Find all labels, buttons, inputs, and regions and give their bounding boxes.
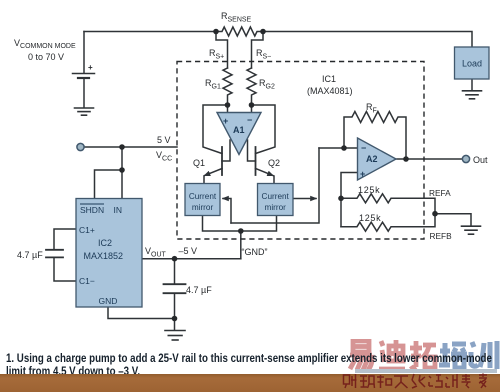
char pin — [360, 376, 375, 388]
char he — [377, 375, 392, 388]
node A2 noninverting — [338, 196, 344, 202]
node ground rail junction — [172, 316, 178, 322]
wire A1 right feedback to Q2 collector — [252, 105, 276, 154]
node A2 inverting — [341, 145, 347, 151]
wire GND drop to -5V rail — [240, 231, 242, 259]
wire A2 output to Out — [396, 158, 463, 160]
wire A1 inverting stub — [251, 105, 253, 113]
op-amp A2 — [358, 138, 397, 180]
wire A2 noninverting input — [341, 173, 358, 199]
battery B1 VCOMMON MODE — [73, 74, 95, 108]
caption line 2 — [6, 366, 140, 378]
wire left mirror input with arrow — [223, 199, 231, 224]
capacitor C1 4.7uF — [46, 250, 63, 258]
watermark char xun — [471, 341, 497, 369]
wire REF node to ground — [435, 214, 471, 226]
svg-text:C1+: C1+ — [79, 225, 95, 235]
wire 5V rail — [84, 146, 177, 148]
svg-text:(MAX4081): (MAX4081) — [307, 86, 353, 96]
svg-text:Load: Load — [462, 59, 482, 69]
char she2 — [429, 375, 442, 387]
svg-text:−: − — [247, 115, 252, 125]
watermark big characters (pseudo CJK strokes) — [346, 339, 500, 375]
svg-text:+: + — [223, 116, 228, 126]
svg-text:Out: Out — [473, 155, 488, 165]
svg-text:5 V: 5 V — [157, 135, 171, 145]
node 5V junction — [119, 144, 125, 150]
watermark underline bar — [355, 369, 497, 373]
IC2 MAX1852 box — [76, 199, 142, 308]
node A1 - input — [249, 102, 255, 108]
svg-text:RS+: RS+ — [209, 48, 224, 61]
svg-text:+: + — [360, 169, 365, 179]
wire 5V to IN pin — [121, 147, 123, 199]
svg-text:REFB: REFB — [430, 231, 453, 241]
ground (Load) — [463, 91, 482, 99]
wire A2 inverting input — [319, 147, 358, 149]
wire RS+ jog — [216, 32, 228, 69]
wire 5V branch to SHDN pin — [95, 170, 123, 199]
wire A1 left feedback to Q1 collector — [203, 105, 228, 154]
bottom brown bar — [0, 374, 500, 392]
terminal 5V — [77, 143, 84, 150]
char ji — [446, 374, 457, 388]
svg-text:Current: Current — [262, 192, 290, 201]
watermark char pei — [439, 343, 467, 368]
resistor RG1 — [223, 68, 232, 105]
node VOUT junction — [172, 256, 178, 262]
watermark char di — [379, 340, 405, 369]
svg-text:RSENSE: RSENSE — [221, 11, 252, 24]
char xian — [412, 374, 425, 388]
resistor RF with loop — [344, 112, 406, 160]
op-amp A1 — [217, 113, 261, 155]
svg-text:IN: IN — [114, 205, 123, 215]
svg-text:125k: 125k — [358, 185, 380, 195]
svg-text:IC1: IC1 — [322, 74, 336, 84]
wire mirror node to A2 inverting node — [231, 148, 319, 223]
current mirror left box — [185, 184, 220, 216]
Load box — [455, 47, 490, 79]
wire C1+ pin — [54, 229, 76, 249]
watermark char tuo — [410, 341, 436, 368]
watermark small characters row (pseudo CJK strokes) — [342, 373, 500, 391]
svg-text:A1: A1 — [233, 125, 245, 135]
svg-text:mirror: mirror — [192, 203, 214, 212]
node RSENSE right junction — [260, 29, 266, 35]
wire VOUT -5V rail — [142, 258, 241, 260]
resistor RG2 — [247, 68, 256, 105]
svg-text:125k: 125k — [359, 213, 381, 223]
char zhuan — [462, 374, 471, 388]
wire right mirror output with arrow — [293, 198, 316, 200]
svg-text:Q2: Q2 — [268, 158, 280, 168]
svg-text:RG1: RG1 — [205, 78, 221, 91]
ground (IC2) — [165, 331, 185, 341]
svg-text:VOUT: VOUT — [145, 246, 167, 259]
IC1 dashed boundary box — [177, 62, 424, 240]
current mirror right box — [258, 184, 294, 216]
watermark char yi — [350, 341, 372, 370]
svg-text:4.7 µF: 4.7 µF — [17, 250, 43, 260]
svg-text:A2: A2 — [366, 154, 378, 164]
resistor RSENSE — [216, 27, 263, 36]
wire Q2 emitter to current mirror — [273, 176, 275, 184]
svg-text:4.7 µF: 4.7 µF — [186, 285, 212, 295]
resistor 125k REFA — [341, 194, 435, 214]
wire RS- jog — [252, 32, 264, 69]
svg-text:−: − — [361, 143, 366, 153]
wire top rail from RSENSE right node to Load — [263, 32, 472, 48]
node REF join — [432, 211, 438, 217]
resistor 125k REFB — [341, 214, 435, 232]
svg-text:IC2: IC2 — [98, 238, 112, 248]
wire source drop — [83, 32, 85, 74]
svg-text:VCC: VCC — [156, 150, 172, 163]
wire IC2 GND pin — [108, 307, 175, 319]
svg-text:C1−: C1− — [79, 276, 95, 286]
transistor Q1 — [205, 140, 231, 176]
capacitor C2 4.7uF — [164, 284, 186, 293]
wire top rail from source to RSENSE left node — [84, 31, 216, 33]
wire VOUT cap drop — [174, 259, 176, 284]
node RSENSE left junction — [213, 29, 219, 35]
wire Q1 emitter to current mirror — [203, 176, 205, 184]
terminal Out — [462, 155, 469, 162]
svg-text:Q1: Q1 — [193, 158, 205, 168]
svg-text:VCOMMON MODE: VCOMMON MODE — [14, 38, 76, 50]
svg-text:0 to 70 V: 0 to 70 V — [28, 52, 64, 62]
svg-text:RS−: RS− — [256, 48, 271, 61]
ground (battery) — [75, 108, 94, 115]
svg-text:Current: Current — [189, 192, 217, 201]
svg-text:–5 V: –5 V — [179, 246, 198, 256]
node A2 output — [403, 156, 409, 162]
svg-text:mirror: mirror — [265, 203, 287, 212]
svg-text:RG2: RG2 — [259, 78, 275, 91]
caption line 1 — [6, 353, 492, 365]
wire between 125k resistors — [340, 198, 342, 226]
svg-text:GND: GND — [99, 296, 118, 306]
char tian — [394, 376, 408, 388]
svg-text:REFA: REFA — [429, 188, 451, 198]
node GND rail junction — [238, 228, 244, 234]
svg-text:“GND”: “GND” — [242, 247, 268, 257]
svg-text:MAX1852: MAX1852 — [84, 251, 124, 261]
char she — [344, 374, 357, 388]
char jia — [479, 374, 487, 389]
wire current mirror bottom rail — [203, 216, 277, 232]
wire ground stem — [174, 319, 176, 331]
node A1 + input — [225, 102, 231, 108]
node SHDN branch junction — [119, 167, 125, 173]
ground (REF) — [462, 226, 481, 234]
wire Load to ground — [471, 79, 473, 91]
svg-text:SHDN: SHDN — [80, 205, 104, 215]
wire A1 noninverting stub — [227, 105, 229, 113]
svg-text:+: + — [88, 63, 93, 72]
wire cap to ground rail — [174, 294, 176, 319]
transistor Q2 — [248, 140, 274, 176]
wire C1- pin — [54, 258, 76, 281]
